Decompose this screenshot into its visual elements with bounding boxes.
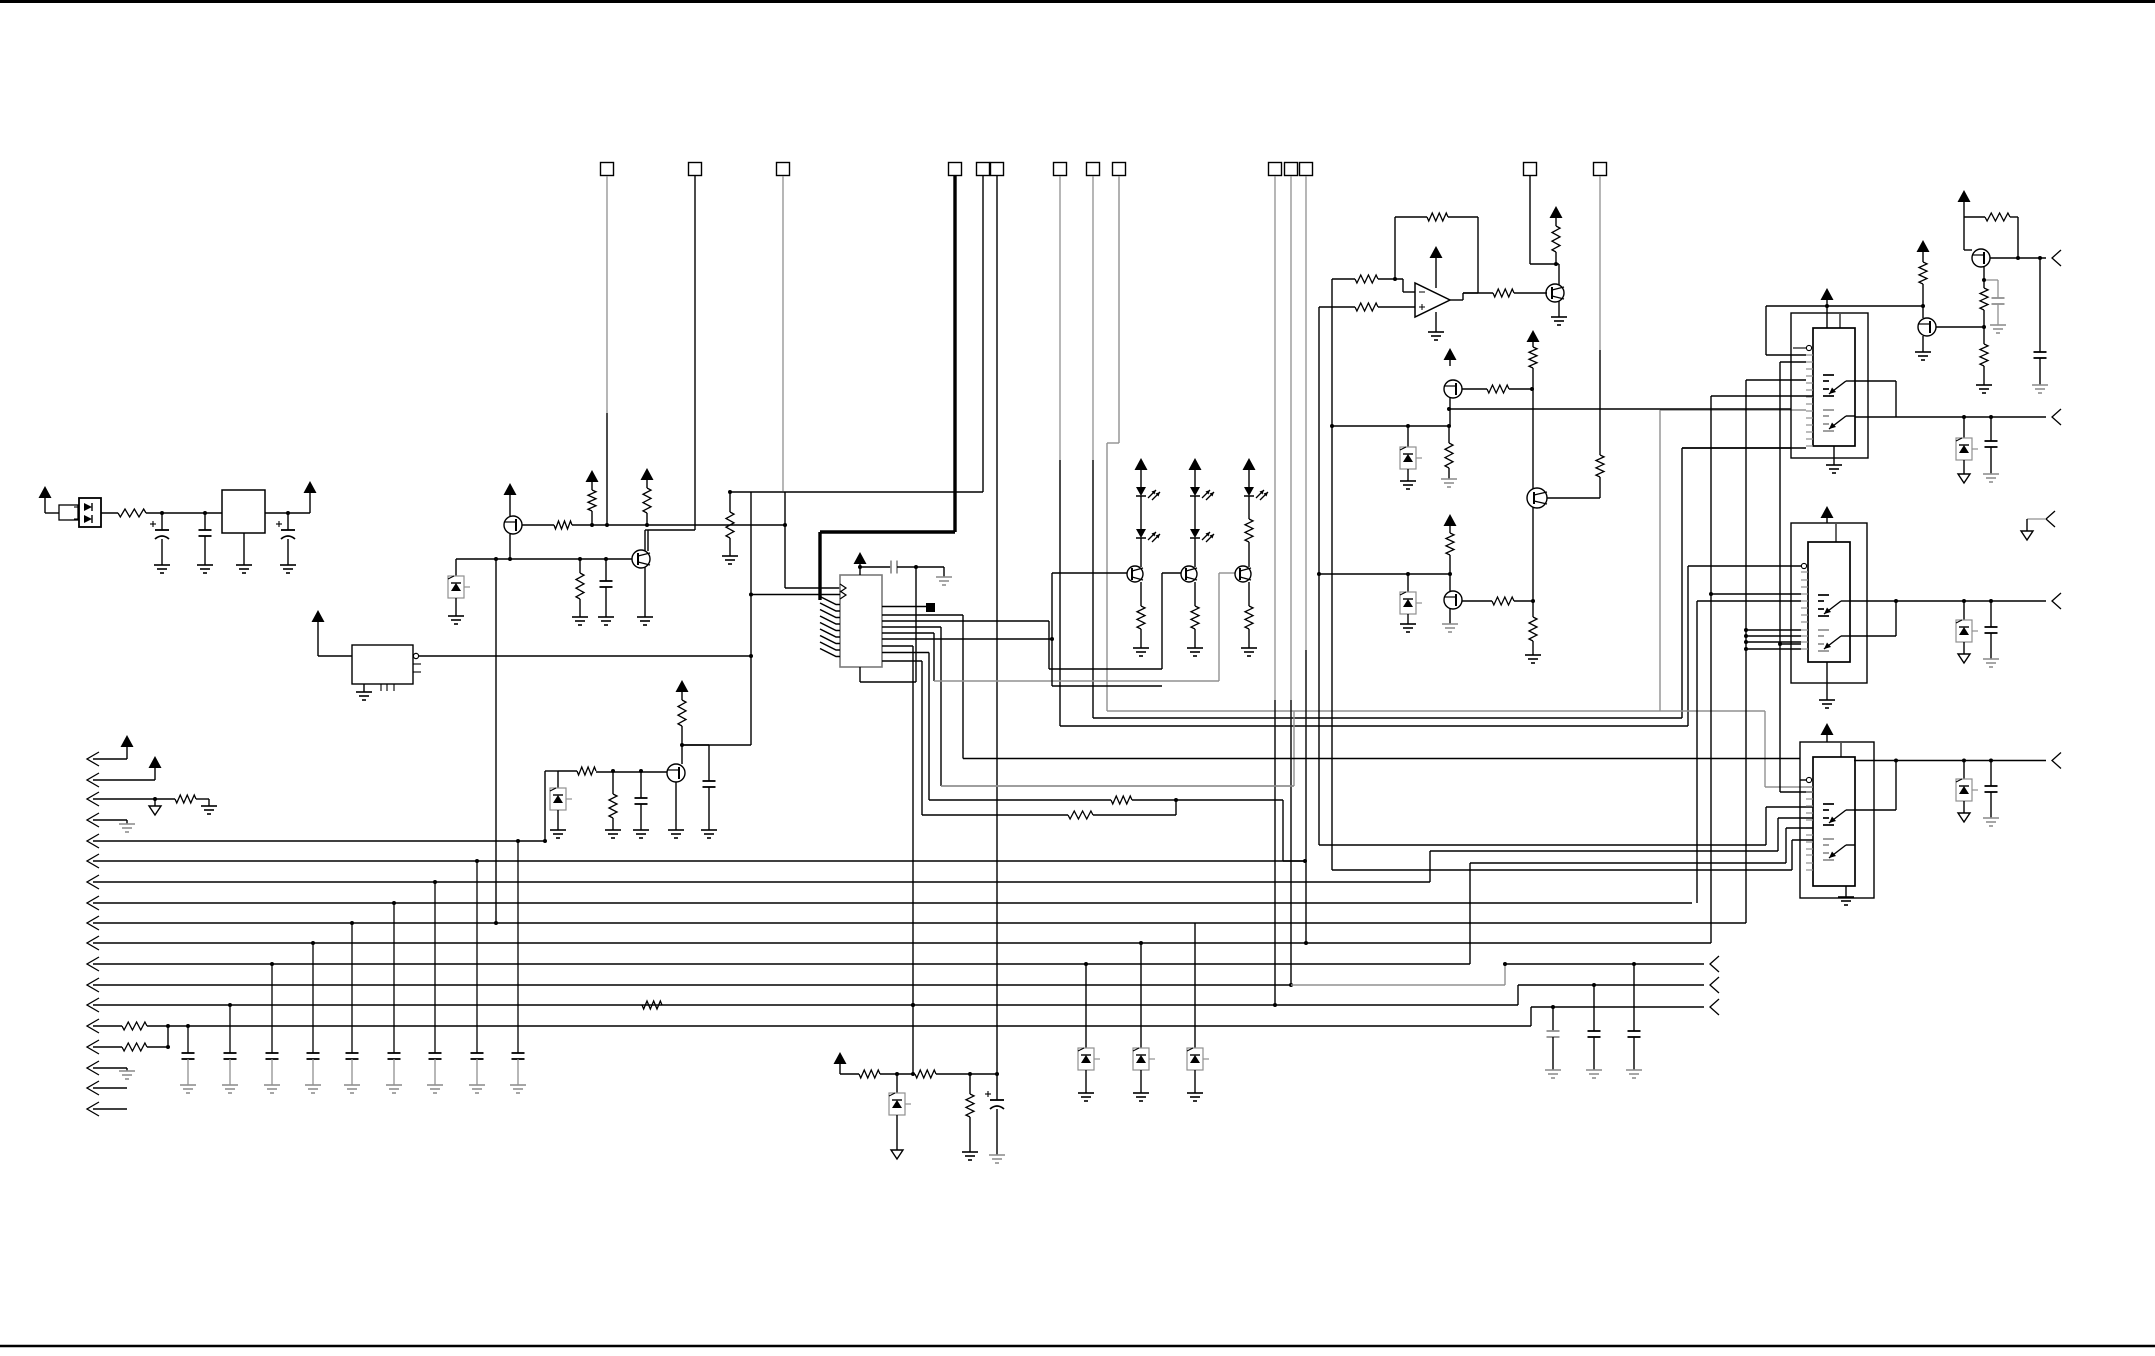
- connector pad J13: [1524, 163, 1537, 176]
- wire C19 tail: [1552, 1037, 1554, 1070]
- wire zener ZD2 stem: [557, 771, 559, 788]
- ground ZD11: [1187, 1093, 1203, 1101]
- wire Q-LED3 emitter: [1248, 582, 1250, 606]
- transistor Q-LED2: [1181, 566, 1197, 582]
- oscillator Y1: [352, 645, 413, 684]
- wire J14 drop: [1599, 176, 1601, 455]
- wire C20 tail: [1593, 1037, 1595, 1070]
- LED D2a: [1136, 487, 1160, 500]
- wire SW2 feed stubs: [1744, 628, 1801, 651]
- ground R27: [201, 806, 217, 814]
- power arrow VCC1: [39, 486, 60, 513]
- wire R7 to Q3 base: [0, 0, 1, 1]
- wire C15 riser: [271, 964, 273, 1053]
- power arrow VCC11: [1444, 348, 1457, 366]
- wire Q9 collector: [1922, 306, 1924, 318]
- junction C5: [639, 769, 643, 773]
- wire Q4 base: [1462, 388, 1487, 390]
- wire ZD10 riser: [1140, 943, 1142, 1048]
- junction bus10 zener: [1139, 941, 1143, 945]
- switch SW1a: [1823, 375, 1855, 396]
- junction bus5-riser: [543, 839, 547, 843]
- junction ZD6: [1962, 599, 1966, 603]
- wire bus14: [147, 1007, 1704, 1026]
- wire Q3 emitter: [675, 782, 677, 830]
- ground C21 (gray): [1626, 1070, 1642, 1078]
- transistor Q7: [1546, 284, 1564, 302]
- connector IN11: [87, 828, 1813, 971]
- transistor Q1: [504, 516, 522, 534]
- junction net8 bus: [1303, 859, 1307, 863]
- wire aux line: [1505, 963, 1704, 965]
- resistor R25: [1980, 327, 1988, 385]
- transistor Q2: [632, 550, 650, 568]
- junction R8: [611, 769, 615, 773]
- wire R16 junction: [1509, 388, 1532, 390]
- resistor R-LED3t: [1245, 519, 1253, 542]
- wire Q7 emitter: [1558, 301, 1560, 317]
- connector IN12: [87, 964, 1505, 992]
- junction loop: [914, 565, 918, 569]
- transistor Q5: [1527, 488, 1547, 508]
- resistor R3: [588, 490, 596, 525]
- connector P5: [2046, 511, 2055, 527]
- wire chain b: [936, 1073, 997, 1075]
- wire J5 corner: [682, 744, 751, 746]
- wire riser 1332: [1332, 279, 1813, 870]
- wire Q2 collector: [645, 530, 648, 551]
- switch SW3b: [1823, 839, 1855, 860]
- junction R16-col: [1530, 387, 1534, 391]
- wire Q1 emitter: [509, 534, 511, 559]
- power arrow VCC-LED1: [1135, 458, 1148, 487]
- switch SW2b: [1818, 630, 1850, 651]
- connector pad J1: [601, 163, 614, 176]
- connector pad J3: [777, 163, 790, 176]
- SW3 top pin: [1840, 743, 1842, 757]
- op-amp U3: [1415, 283, 1450, 317]
- wire J9 drop (gray): [1107, 176, 1765, 711]
- wire SW1 in B: [1778, 362, 1813, 792]
- ground U1: [236, 533, 252, 573]
- wire U3 out: [1450, 293, 1493, 300]
- switch block SW2 outer: [1791, 523, 1867, 683]
- junction bus13 cap: [228, 1003, 232, 1007]
- junction IN3: [153, 797, 157, 801]
- junction bus9 cap: [350, 921, 354, 925]
- ground ZD4: [1400, 624, 1416, 632]
- junction R18: [1447, 424, 1451, 428]
- switch block SW1: [1813, 328, 1855, 446]
- resistor R-LED1: [1137, 606, 1145, 629]
- junction C2: [203, 511, 207, 515]
- wire Q6 row: [1319, 573, 1450, 575]
- junction U2 vcc: [858, 565, 862, 569]
- ground C2: [197, 565, 213, 573]
- junction C1: [160, 511, 164, 515]
- connector pad J11: [1285, 163, 1298, 176]
- junction bus10 cap: [311, 941, 315, 945]
- capacitor C17: [346, 1053, 359, 1059]
- wire riser to zener row: [545, 771, 558, 841]
- ground IN4 (gray): [119, 824, 135, 832]
- SW2 enable pin: [1801, 563, 1806, 568]
- connector pad J9: [1113, 163, 1126, 176]
- resistor R16: [1487, 385, 1509, 393]
- ground C11 (gray): [1983, 659, 1999, 667]
- capacitor C20: [1588, 1031, 1601, 1037]
- resistor R-LED3: [1245, 606, 1253, 629]
- wire SW3 select pin: [1800, 779, 1806, 781]
- capacitor C19: [1547, 1031, 1560, 1037]
- junction row-1332: [1330, 424, 1334, 428]
- zener ZD10: [1133, 1048, 1155, 1070]
- resistor R22: [1529, 601, 1537, 655]
- junction riser-bus9: [494, 921, 498, 925]
- switch block SW1 outer: [1791, 313, 1868, 458]
- connector IN3: [87, 792, 175, 806]
- wire C19 tail: [434, 1059, 436, 1085]
- power arrow VCC9: [1430, 246, 1443, 288]
- junction ZD7: [1962, 759, 1966, 763]
- junction R4: [645, 523, 649, 527]
- ground C21 (gray): [510, 1085, 526, 1093]
- wire Q5 top: [1532, 389, 1534, 489]
- ground LED2: [1187, 648, 1203, 656]
- resistor R33: [966, 1074, 974, 1152]
- wire clk2: [751, 594, 840, 596]
- wire VCC line: [1766, 305, 1923, 307]
- ground ZD3: [1400, 481, 1416, 489]
- ground R22: [1525, 655, 1541, 663]
- resistor R12: [1355, 303, 1378, 311]
- wire J2 drop: [648, 176, 695, 551]
- junction R3: [590, 523, 594, 527]
- ground C17 (gray): [344, 1085, 360, 1093]
- wire C9 branch (gray): [1984, 280, 1998, 298]
- wire zener ZD1 stem: [455, 559, 457, 576]
- resistor R32: [915, 1070, 936, 1078]
- connector pad J14: [1594, 163, 1607, 176]
- wire row to R7: [558, 770, 577, 772]
- wire SW1 in D: [1682, 447, 1806, 449]
- wire ZD11 tail: [1194, 1070, 1196, 1093]
- connector P4: [2052, 753, 2061, 769]
- ground R8: [605, 830, 621, 838]
- connector IN10: [87, 396, 1813, 950]
- ground ZD2: [550, 810, 566, 838]
- SW1 out pin: [1855, 381, 1896, 417]
- junction R5: [578, 557, 582, 561]
- junction bus15 link: [166, 1045, 170, 1049]
- connector pad J7: [1054, 163, 1067, 176]
- wire Q5 bottom: [1532, 507, 1534, 601]
- wire R27 gnd: [196, 799, 209, 806]
- switch SW1b: [1823, 410, 1855, 431]
- U2 pin stub 1: [882, 606, 929, 608]
- switch SW3a: [1823, 804, 1855, 825]
- wire Y1 to clk column: [419, 655, 751, 657]
- ground R33: [962, 1152, 978, 1160]
- junction Q5-Q6: [1531, 599, 1535, 603]
- wire ZD11 riser: [1194, 923, 1196, 1048]
- wire J1 drop: [606, 176, 608, 525]
- ground C5: [633, 830, 649, 838]
- SW1 top pin: [1839, 314, 1841, 328]
- oscillator Y1 pins: [381, 664, 421, 691]
- ground C20 (gray): [469, 1085, 485, 1093]
- wire C13 tail: [187, 1059, 189, 1085]
- junction C3: [286, 511, 290, 515]
- open arrow ZD5: [1958, 474, 1970, 483]
- ground LED3: [1241, 648, 1257, 656]
- power arrow VCC5: [586, 470, 599, 490]
- junction ZD3: [1406, 424, 1410, 428]
- zener ZD11: [1187, 1048, 1209, 1070]
- wire Q7 collector: [1556, 264, 1559, 285]
- ground R18 (gray): [1441, 479, 1457, 487]
- ground Q9: [1915, 352, 1931, 360]
- ground R5: [572, 617, 588, 625]
- ground C18 (gray): [386, 1085, 402, 1093]
- junction Q9 base: [1982, 325, 1986, 329]
- junction Q6 top: [1448, 572, 1452, 576]
- wire SW1 in C: [1746, 380, 1806, 923]
- junction R6-Q3: [680, 743, 684, 747]
- wire R21 junction: [1514, 600, 1533, 602]
- junction bus11 cap: [270, 962, 274, 966]
- wire link 14-15: [167, 1026, 169, 1047]
- resistor R19: [1596, 455, 1604, 477]
- wire R to Q: [1248, 542, 1250, 567]
- resistor R11: [1355, 275, 1378, 283]
- connector P1: [2052, 250, 2061, 266]
- ground C12 (gray): [1983, 818, 1999, 826]
- capacitor C11: [1985, 601, 1998, 659]
- wire in1: [1332, 278, 1355, 280]
- capacitor C7: [891, 561, 897, 574]
- U2 input pin fan: [820, 597, 840, 657]
- wire T1 base loop: [1052, 573, 1162, 686]
- ground ZD10: [1133, 1093, 1149, 1101]
- resistor R8: [609, 771, 617, 830]
- wire LED2 mid: [1194, 496, 1196, 529]
- power arrow VCC2: [304, 481, 317, 513]
- capacitor C13: [182, 1053, 195, 1059]
- resistor R10: [1068, 811, 1093, 819]
- junction row-1319: [1317, 572, 1321, 576]
- wire R11 to opamp: [1378, 279, 1415, 292]
- SW3 out pin 2: [1854, 761, 1896, 811]
- connector IN1: [87, 752, 127, 766]
- open arrow P5: [2021, 531, 2033, 540]
- transistor Q6: [1444, 591, 1462, 609]
- ground C9 (gray): [1990, 325, 2006, 333]
- capacitor C9 (gray): [1992, 298, 2005, 304]
- connector pad J2: [689, 163, 702, 176]
- wire C14 riser: [229, 1005, 231, 1053]
- wire Q9 emitter: [1922, 336, 1924, 352]
- connector IN13: [87, 985, 1704, 1012]
- ground C3: [280, 565, 296, 573]
- ground C6: [701, 830, 717, 838]
- junction bus14 link: [166, 1024, 170, 1028]
- wire LED2 low: [1194, 538, 1196, 567]
- ground ZD1: [448, 598, 464, 624]
- wire clock line: [751, 492, 983, 745]
- SW2 out pin: [1850, 600, 2046, 602]
- capacitor C8: [2034, 352, 2047, 358]
- wire J5 drop: [982, 176, 984, 492]
- ground C16 (gray): [305, 1085, 321, 1093]
- capacitor C6: [703, 745, 716, 830]
- junction ZD5: [1962, 415, 1966, 419]
- resistor R14: [1493, 289, 1514, 297]
- junction SW3 line: [1894, 759, 1898, 763]
- U2 pin net 2: [882, 615, 963, 759]
- connector pad J10: [1269, 163, 1282, 176]
- wire C18 riser: [393, 903, 395, 1053]
- connector P8: [1710, 999, 1719, 1015]
- wire Q1 base chain: [522, 524, 554, 526]
- resistor R17: [1529, 347, 1537, 389]
- junction bus11 capR: [1632, 962, 1636, 966]
- wire P5 stub: [2027, 519, 2046, 531]
- resistor R20: [1446, 533, 1454, 574]
- connector pad J4: [949, 163, 962, 176]
- wire net9 cont: [1093, 800, 1176, 815]
- wire Q-LED1 emitter: [1140, 582, 1142, 606]
- capacitor C2: [199, 513, 212, 565]
- wire net8 cont: [1132, 800, 1305, 861]
- wire R-LED3 gnd: [1248, 629, 1250, 648]
- SW2 input stubs: [1801, 572, 1808, 649]
- junction bus11 zener: [1084, 962, 1088, 966]
- junction C4: [604, 557, 608, 561]
- wire D1 out: [101, 512, 118, 514]
- ground C4: [598, 617, 614, 625]
- wire net2 bus: [963, 758, 1800, 760]
- wire gray branch to SW3: [1765, 711, 1813, 787]
- switch block SW3 outer: [1800, 742, 1874, 898]
- connector P3: [2052, 593, 2061, 609]
- SW2 out pin 2: [1850, 601, 1896, 636]
- ground C8 (gray): [2032, 385, 2048, 393]
- wire C18 tail: [393, 1059, 395, 1085]
- resistor R28 (inline): [642, 1001, 662, 1009]
- junction Q8-R23: [2016, 256, 2020, 260]
- wire U1 out: [265, 512, 310, 514]
- junction J11 bus: [1289, 983, 1293, 987]
- wire C9 gnd: [1997, 304, 1999, 325]
- connector IN9: [87, 916, 1746, 930]
- capacitor C16: [307, 1053, 320, 1059]
- wire LED1 low: [1140, 538, 1142, 567]
- wire LED3 to R: [1248, 496, 1250, 519]
- capacitor C21: [512, 1053, 525, 1059]
- power arrow VCC19: [121, 735, 134, 759]
- zener ZD4: [1400, 574, 1422, 624]
- resistor R30: [122, 1043, 147, 1051]
- resistor R15: [1552, 226, 1560, 264]
- wire gray branch to SW1: [1660, 410, 1806, 711]
- wire C14 tail: [229, 1059, 231, 1085]
- U2 pin net 9: [882, 661, 1068, 815]
- capacitor C18: [388, 1053, 401, 1059]
- connector IN7: [87, 818, 1813, 889]
- ground C19 (gray): [1545, 1070, 1561, 1078]
- power arrow VCC21: [834, 1052, 860, 1074]
- junction ZD4: [1406, 572, 1410, 576]
- junction bus8 cap: [392, 901, 396, 905]
- junction C10: [1989, 415, 1993, 419]
- capacitor C21: [1628, 1031, 1641, 1037]
- wire U2 bottom loop: [860, 567, 916, 682]
- connector IN18: [87, 1102, 127, 1116]
- wire Q1 net riser: [495, 559, 497, 923]
- switch block SW2: [1808, 542, 1850, 662]
- wire Q3 collector: [681, 745, 683, 764]
- capacitor C3 (polarized): [276, 513, 295, 565]
- junction Q8e: [1982, 278, 1986, 282]
- junction Q7 collector: [1554, 262, 1558, 266]
- wire vcc to C7: [860, 566, 891, 568]
- connector P2: [2052, 409, 2061, 425]
- IC U2: [840, 575, 882, 667]
- resistor R6: [678, 700, 686, 745]
- wire chain to clock: [572, 524, 785, 526]
- zener ZD5: [1956, 417, 1978, 474]
- LED D2b: [1136, 529, 1160, 542]
- power arrow VCC-LED3: [1243, 458, 1256, 487]
- dual diode D1: [74, 498, 101, 527]
- power arrow VCC-LED2: [1189, 458, 1202, 487]
- capacitor C5: [635, 771, 648, 830]
- resistor R4: [643, 488, 651, 525]
- connector IN8: [87, 601, 1801, 910]
- resistor R34: [726, 490, 751, 556]
- wire C16 tail: [312, 1059, 314, 1085]
- U2 clock pin 2: [840, 591, 846, 599]
- resistor R29: [122, 1022, 147, 1030]
- SW3 input stubs: [1806, 787, 1813, 870]
- SW3 enable pin: [1806, 777, 1811, 782]
- border bottom: [0, 1345, 2155, 1348]
- ground C10 (gray): [1983, 474, 1999, 482]
- connector P6: [1710, 956, 1719, 972]
- junction net8-9: [1174, 798, 1178, 802]
- switch SW2a: [1818, 595, 1850, 616]
- power arrow VCC20: [149, 756, 162, 780]
- junction C8 net: [2038, 256, 2042, 260]
- junction Q1-base line: [508, 557, 512, 561]
- connector IN14: [87, 1019, 122, 1033]
- connector IN15: [87, 1040, 122, 1054]
- border top: [0, 0, 2155, 3]
- wire J8 drop: [1093, 176, 1791, 718]
- U2 pin net 5: [882, 573, 1235, 681]
- junction riser-base: [494, 557, 498, 561]
- wire Q6 base: [1462, 600, 1492, 602]
- capacitor C12: [1985, 761, 1998, 819]
- regulator U1: [222, 490, 265, 533]
- wire Q6 emitter: [1449, 609, 1451, 624]
- junction C12: [1989, 759, 1993, 763]
- power arrow VCC16: [1821, 288, 1834, 306]
- connector pad J8: [1087, 163, 1100, 176]
- connector P7: [1710, 977, 1719, 993]
- power arrow VCC12: [1527, 330, 1540, 347]
